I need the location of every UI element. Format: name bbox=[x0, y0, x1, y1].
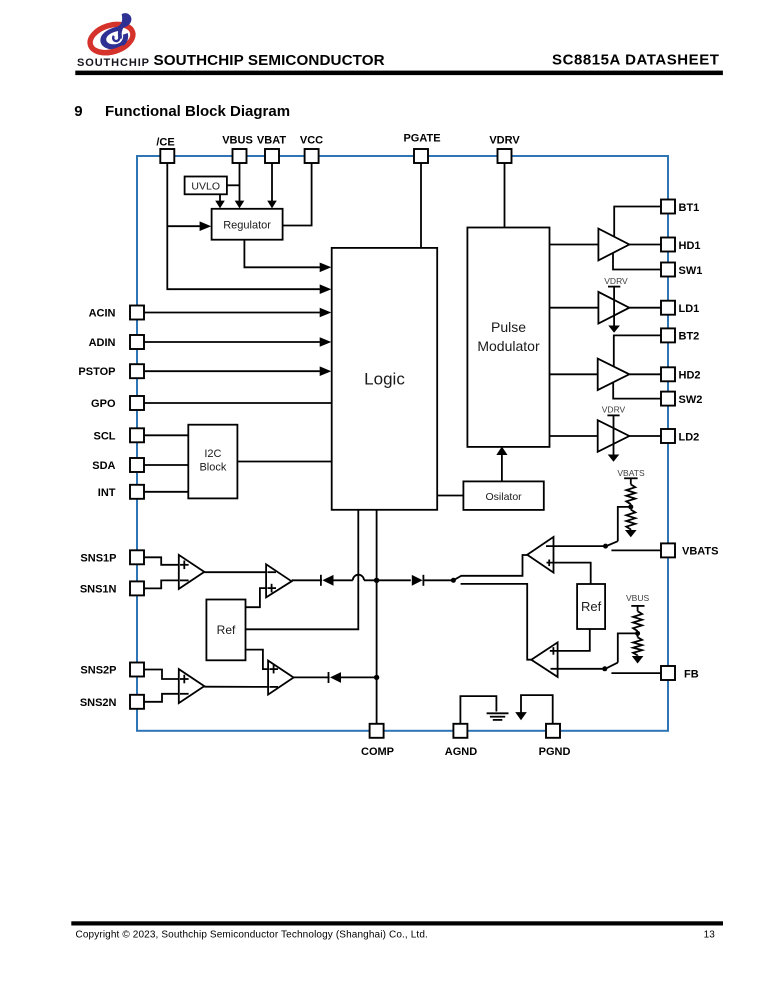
wire logic to left ref bbox=[246, 510, 359, 630]
wire arrow UVLO into regulator bbox=[215, 201, 225, 209]
wire HD1 driver to HD1 pin bbox=[629, 244, 661, 246]
regulator box bbox=[212, 209, 283, 240]
wire SNS1N to amp A1 bbox=[144, 580, 187, 588]
chip boundary bbox=[137, 156, 668, 731]
svg-text:PSTOP: PSTOP bbox=[78, 366, 115, 378]
pin ACIN bbox=[130, 306, 144, 320]
wire A4 out to diode D3 bbox=[294, 676, 330, 678]
svg-text:COMP: COMP bbox=[361, 746, 394, 758]
svg-text:Logic: Logic bbox=[364, 370, 405, 389]
svg-text:LD2: LD2 bbox=[679, 431, 700, 443]
wire PGATE down to logic bbox=[420, 163, 422, 248]
svg-text:SOUTHCHIP SEMICONDUCTOR: SOUTHCHIP SEMICONDUCTOR bbox=[154, 52, 385, 69]
pin HD2 bbox=[661, 367, 675, 381]
plus sign A2 bbox=[267, 587, 276, 589]
pin VBAT bbox=[265, 149, 279, 163]
svg-text:SC8815A DATASHEET: SC8815A DATASHEET bbox=[552, 52, 719, 69]
pin INT bbox=[130, 485, 144, 499]
ground symbol bbox=[487, 712, 509, 714]
wire PSTOP to logic bbox=[144, 370, 320, 372]
wire PM to HD1 driver bbox=[550, 244, 599, 246]
pin ADIN bbox=[130, 335, 144, 349]
svg-text:/CE: /CE bbox=[156, 137, 174, 149]
comparator CMP2 (FB) bbox=[531, 642, 557, 677]
wire VBAT down bbox=[271, 163, 273, 201]
pin LD2 bbox=[661, 429, 675, 443]
wire SCL to I2C block bbox=[144, 434, 188, 436]
svg-text:SNS1P: SNS1P bbox=[80, 552, 116, 564]
svg-text:Osilator: Osilator bbox=[486, 491, 523, 503]
svg-text:VBATS: VBATS bbox=[682, 546, 718, 558]
pin COMP bbox=[370, 724, 384, 738]
oscillator box bbox=[463, 481, 543, 510]
minus input wire CMP2 bbox=[551, 668, 605, 670]
pin HD1 bbox=[661, 238, 675, 252]
driver U1 HD1 bbox=[598, 229, 629, 261]
wire I2C block to logic bbox=[237, 461, 331, 463]
svg-text:VBAT: VBAT bbox=[257, 135, 286, 147]
wire A1 out to A2 bbox=[204, 571, 274, 573]
pin SNS2N bbox=[130, 695, 144, 709]
comparator CMP1 (VBATS) bbox=[527, 537, 553, 573]
wire D3 to COMP node bbox=[341, 676, 377, 678]
pin LD1 bbox=[661, 301, 675, 315]
wire FB divider junction to switch S3 bbox=[618, 633, 638, 662]
wire divider junction to switch S2 bbox=[618, 507, 631, 541]
logic block bbox=[332, 248, 438, 510]
minus sign A1 bbox=[180, 579, 189, 581]
wire INT to I2C block bbox=[144, 491, 188, 493]
wire ACIN to logic bbox=[144, 312, 320, 314]
wire arrow into regulator left bbox=[200, 221, 212, 231]
pin SCL bbox=[130, 428, 144, 442]
wire R2 to arrow bbox=[630, 530, 632, 531]
svg-text:GPO: GPO bbox=[91, 398, 116, 410]
svg-text:HD1: HD1 bbox=[679, 240, 701, 252]
wire AGND hook bbox=[460, 696, 496, 724]
wire arrow regulator into logic bbox=[320, 263, 332, 273]
wire A2 out to diode D1 bbox=[292, 579, 322, 581]
header rule bbox=[75, 71, 723, 76]
wire VCC down into regulator right bbox=[283, 163, 312, 226]
svg-text:VBATS: VBATS bbox=[617, 468, 645, 478]
minus sign A3 bbox=[180, 693, 189, 695]
I2C block box bbox=[188, 425, 237, 499]
switch S2 blade bbox=[607, 541, 618, 546]
svg-text:INT: INT bbox=[98, 487, 116, 499]
pin SNS1N bbox=[130, 581, 144, 595]
wire /CE vertical to logic bbox=[167, 163, 320, 289]
pin SNS1P bbox=[130, 550, 144, 564]
svg-text:HD2: HD2 bbox=[679, 370, 701, 382]
svg-text:VCC: VCC bbox=[300, 135, 323, 147]
pin PSTOP bbox=[130, 364, 144, 378]
diode D1 bbox=[320, 575, 322, 586]
driver U3 HD2 bbox=[598, 359, 630, 390]
wire PM to LD1 driver bbox=[550, 307, 599, 309]
resistor R4 bbox=[633, 637, 642, 655]
svg-text:Block: Block bbox=[199, 462, 226, 474]
wire arrow VBUS into regulator bbox=[235, 201, 245, 209]
wire arrow PGND down bbox=[515, 712, 527, 720]
wire VDRV return arrow below LD2 driver bbox=[608, 455, 620, 462]
wire SNS1P to amp A1 bbox=[144, 557, 187, 565]
node junction comp line top bbox=[374, 578, 379, 583]
wire VDRV return arrow below LD1 driver bbox=[608, 326, 620, 333]
pin SW2 bbox=[661, 392, 675, 406]
wire arrow /CE into logic bbox=[320, 284, 332, 294]
svg-text:FB: FB bbox=[684, 668, 699, 680]
svg-text:SNS2P: SNS2P bbox=[80, 665, 116, 677]
svg-text:AGND: AGND bbox=[445, 746, 477, 758]
node divider junction bbox=[628, 504, 633, 509]
plus sign A3 bbox=[180, 678, 189, 680]
wire FB pin open throw bbox=[611, 672, 661, 674]
wire SW2 to driver bottom bbox=[613, 382, 661, 399]
svg-text:VDRV: VDRV bbox=[604, 276, 628, 286]
svg-text:BT1: BT1 bbox=[679, 202, 700, 214]
resistor R3 bbox=[633, 611, 642, 631]
pulse modulator block bbox=[467, 228, 549, 447]
pin AGND bbox=[453, 724, 467, 738]
wire BT2 to driver top bbox=[614, 335, 661, 367]
wire LD2 driver to LD2 pin bbox=[629, 435, 661, 437]
pin /CE bbox=[160, 149, 174, 163]
pin VBATS bbox=[661, 543, 675, 557]
wire VDRV down to pulse modulator bbox=[504, 163, 506, 228]
wire regulator output to logic bbox=[244, 240, 320, 268]
VBUS supply tee bbox=[631, 605, 644, 607]
svg-text:Ref: Ref bbox=[217, 623, 236, 637]
amp A4 bbox=[268, 661, 294, 695]
wire SNS2P to amp A3 bbox=[144, 670, 187, 680]
resistor R2 bbox=[626, 510, 635, 530]
svg-text:SW2: SW2 bbox=[679, 394, 703, 406]
wire oscillator to pulse modulator bbox=[501, 453, 503, 481]
svg-text:13: 13 bbox=[704, 930, 716, 941]
ref block left bbox=[206, 600, 245, 661]
pin GPO bbox=[130, 396, 144, 410]
svg-text:BT2: BT2 bbox=[679, 331, 700, 343]
driver U4 LD2 bbox=[598, 420, 630, 452]
svg-text:PGND: PGND bbox=[539, 746, 571, 758]
pin SDA bbox=[130, 458, 144, 472]
minus input wire CMP1 bbox=[546, 545, 606, 547]
wire D2 to switch bbox=[423, 579, 453, 581]
wire hop to COMP node bbox=[364, 579, 411, 581]
plus sign A1 bbox=[180, 564, 189, 566]
node junction comp line bottom bbox=[374, 675, 379, 680]
wire R4 to arrow bbox=[637, 655, 639, 656]
node /CE branch to regulator bbox=[167, 225, 200, 227]
logo red ring front arc bbox=[87, 19, 137, 57]
wire HD2 driver to HD2 pin bbox=[629, 373, 661, 375]
svg-text:SCL: SCL bbox=[94, 430, 116, 442]
switch S3 blade bbox=[606, 663, 618, 669]
wire LD1 driver to LD1 pin bbox=[629, 307, 661, 309]
logo red ring bbox=[87, 19, 137, 57]
wire arrow FB divider down bbox=[632, 656, 644, 664]
wire UVLO down stub bbox=[219, 194, 221, 201]
pin BT1 bbox=[661, 200, 675, 214]
wire logic to comp node / COMP pin bbox=[376, 510, 378, 724]
svg-text:Copyright © 2023, Southchip Se: Copyright © 2023, Southchip Semiconducto… bbox=[76, 930, 428, 941]
svg-text:PGATE: PGATE bbox=[403, 133, 440, 145]
pin PGATE bbox=[414, 149, 428, 163]
wire switch throw to comparator CMP1 output bbox=[461, 555, 527, 576]
amp A1 bbox=[179, 555, 205, 589]
wire UVLO output to VBUS line bbox=[227, 184, 240, 186]
svg-text:VDRV: VDRV bbox=[489, 135, 520, 147]
wire PM to LD2 driver bbox=[550, 435, 598, 437]
wire arrow divider down bbox=[625, 530, 637, 537]
wire PM to HD2 driver bbox=[550, 373, 598, 375]
plus sign CMP2 bbox=[550, 650, 558, 652]
svg-text:Ref: Ref bbox=[581, 599, 602, 614]
switch S2 node on CMP1 minus bbox=[603, 544, 608, 549]
wire ref to A2 plus input bbox=[246, 588, 275, 607]
ref block right bbox=[577, 584, 605, 629]
svg-text:LD1: LD1 bbox=[679, 303, 700, 315]
wire VBUS down bbox=[239, 163, 241, 201]
minus sign A4 bbox=[269, 686, 278, 688]
UVLO box bbox=[185, 177, 227, 195]
wire PGND hook bbox=[521, 695, 553, 724]
svg-text:ACIN: ACIN bbox=[89, 308, 116, 320]
footer rule bbox=[71, 921, 723, 925]
diode D2 bbox=[412, 575, 423, 586]
pin VCC bbox=[305, 149, 319, 163]
pin VBUS bbox=[233, 149, 247, 163]
svg-text:Functional Block Diagram: Functional Block Diagram bbox=[105, 103, 290, 120]
minus sign A2 bbox=[267, 571, 276, 573]
svg-text:Pulse: Pulse bbox=[491, 319, 526, 335]
svg-text:I2C: I2C bbox=[204, 448, 221, 460]
svg-text:VBUS: VBUS bbox=[626, 593, 649, 603]
resistor R1 bbox=[626, 484, 635, 504]
pin BT2 bbox=[661, 328, 675, 342]
wire ADIN to logic bbox=[144, 341, 320, 343]
pin PGND bbox=[546, 724, 560, 738]
plus sign A4 bbox=[269, 668, 278, 670]
svg-text:SNS1N: SNS1N bbox=[80, 583, 117, 595]
pin VDRV bbox=[498, 149, 512, 163]
svg-text:Regulator: Regulator bbox=[223, 219, 271, 231]
pin FB bbox=[661, 666, 675, 680]
wire arrow into pulse modulator bottom bbox=[496, 447, 507, 456]
svg-text:VDRV: VDRV bbox=[602, 405, 626, 415]
diode D3 bbox=[328, 672, 330, 683]
wire VBATS pin open throw bbox=[611, 549, 661, 551]
svg-text:VBUS: VBUS bbox=[222, 135, 253, 147]
pin SNS2P bbox=[130, 663, 144, 677]
driver U2 LD1 bbox=[598, 292, 629, 324]
wire D1 to hop bbox=[334, 579, 353, 581]
wire BT1 to driver top bbox=[614, 207, 661, 238]
wire SW1 to driver bottom bbox=[613, 252, 661, 269]
wire SDA to I2C block bbox=[144, 464, 188, 466]
svg-text:SW1: SW1 bbox=[679, 265, 703, 277]
wire arrow VBAT into regulator bbox=[267, 201, 277, 209]
plus sign CMP1 bbox=[548, 560, 550, 567]
wire R1 to R2 bbox=[630, 504, 632, 509]
wire switch lower throw to comparator CMP2 output bbox=[461, 584, 532, 660]
VBATS supply tee bbox=[624, 477, 638, 479]
pin SW1 bbox=[661, 263, 675, 277]
wire GPO to logic bbox=[144, 402, 332, 404]
svg-text:9: 9 bbox=[74, 103, 82, 120]
svg-text:SOUTHCHIP: SOUTHCHIP bbox=[77, 57, 150, 69]
logo blue swirl bbox=[100, 13, 131, 49]
node divider junction FB bbox=[635, 631, 640, 636]
wire hop over ref line bbox=[353, 575, 364, 581]
svg-text:UVLO: UVLO bbox=[191, 180, 220, 192]
svg-text:Modulator: Modulator bbox=[477, 338, 540, 354]
amp A2 bbox=[266, 564, 292, 597]
svg-text:ADIN: ADIN bbox=[89, 337, 116, 349]
wire ref to A4 plus input bbox=[246, 650, 277, 670]
switch S1 common node bbox=[451, 578, 456, 583]
switch S1 blade bbox=[453, 576, 461, 581]
wire SNS2N to amp A3 bbox=[144, 694, 187, 702]
wire logic to oscillator bbox=[437, 495, 463, 497]
svg-text:SDA: SDA bbox=[92, 460, 115, 472]
amp A3 bbox=[179, 669, 205, 703]
wire ref bottom to CMP2 plus bbox=[551, 629, 590, 651]
switch S3 node on CMP2 minus bbox=[602, 666, 607, 671]
wire R3 to R4 bbox=[637, 631, 639, 637]
plus input wire CMP1 to ref top bbox=[547, 563, 591, 584]
svg-text:SNS2N: SNS2N bbox=[80, 697, 117, 709]
wire A3 out to A4 bbox=[204, 686, 276, 688]
